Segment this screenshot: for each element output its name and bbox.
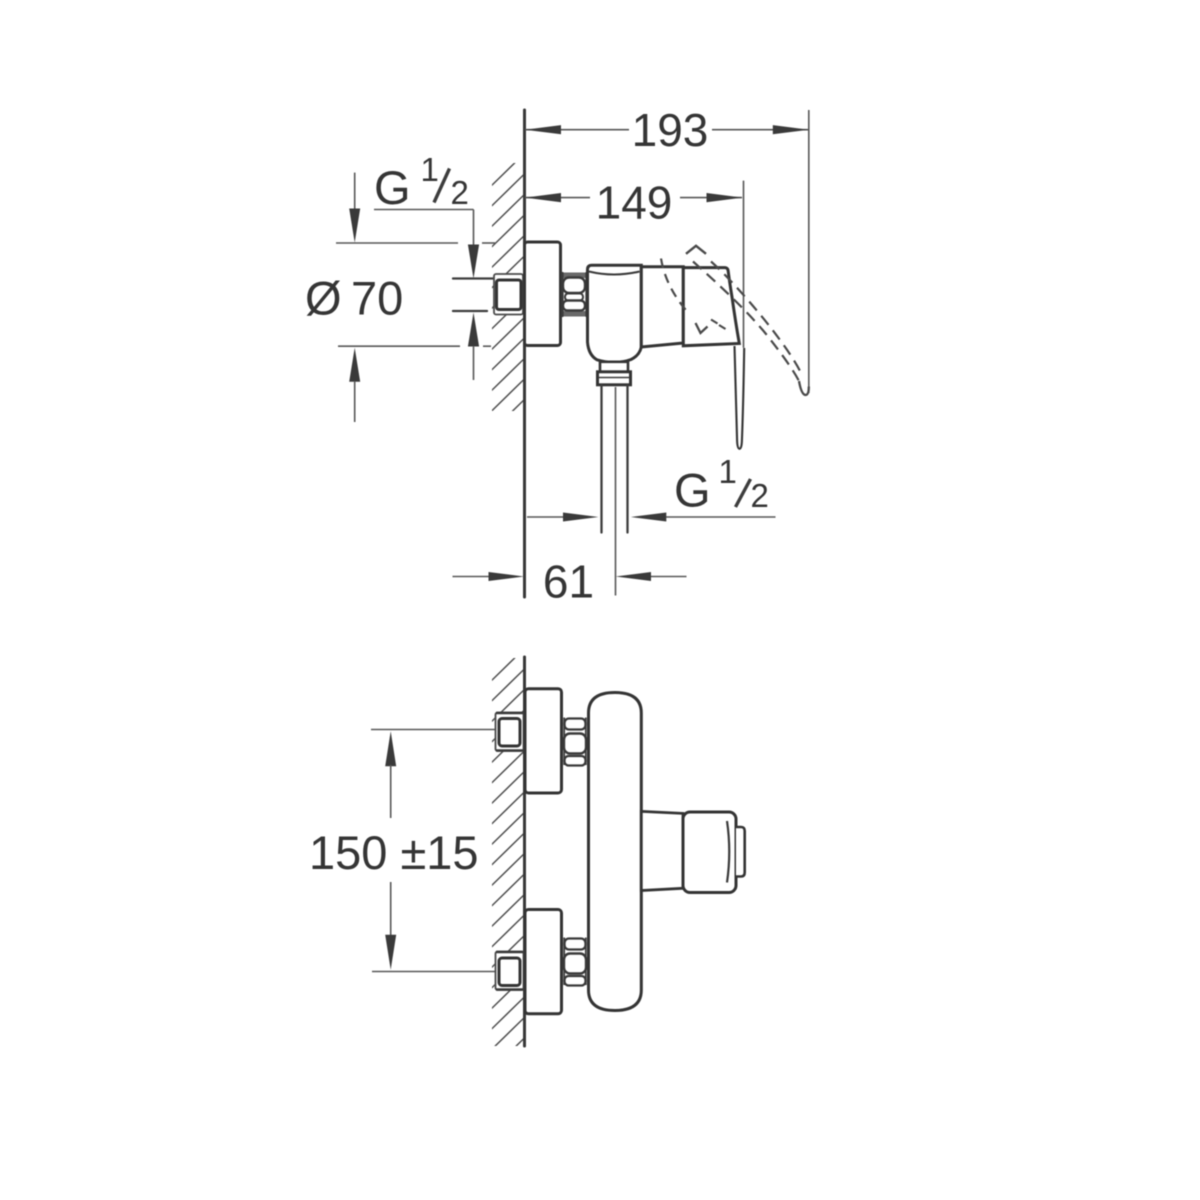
svg-text:1: 1 [719,453,737,490]
svg-text:1: 1 [421,151,439,188]
G1/2 leader bracket [374,209,474,211]
dimension 193: dimension line [525,104,809,393]
handle block (front view) [683,812,736,893]
rotation arc arrowhead (check mark) [696,323,708,333]
svg-text:150 ±15: 150 ±15 [309,826,479,879]
dashed lever edge A [693,262,800,383]
dashed lever tip hook [799,381,809,395]
pipe fitting square (bottom view, top union) [499,719,520,747]
hex union nut (side view) [563,273,587,316]
supply pipe lines behind wall [453,277,495,279]
G1/2 lower arrow (up) [468,313,479,347]
hose centre extension line [615,387,617,596]
bottom escutcheon (bottom view) [525,910,562,1014]
top union nut (bottom view) [564,718,586,766]
handle end button [736,827,745,877]
wall hatching (bottom view) [486,643,530,1076]
dimension 149 [525,177,744,349]
svg-text:2: 2 [751,477,769,514]
outlet collar [598,372,631,385]
outlet neck [600,362,628,372]
mixer body capsule (front view) [589,693,642,1011]
handle neck (front view) [641,811,683,890]
G1/2 hose dimension arrows [527,516,564,518]
threaded nipple bands [562,273,588,279]
150 dim line and arrows [385,731,396,766]
pipe fitting outer (bottom view, top union) [496,713,524,752]
dimension 150±15 ticks [371,729,497,731]
escutcheon flange (side view) [525,242,561,346]
wall line (bottom view) [523,657,526,1046]
shower hose lines [600,385,602,533]
193 right extension line [808,110,810,393]
svg-text:Ø: Ø [305,272,342,325]
dimension 61 [453,576,490,578]
149 right extension line [743,181,745,348]
dashed handle raised position: caret tip [686,246,706,254]
lower arc dashes [711,320,718,324]
dashed lever edge B [711,262,801,374]
body cap seam [589,272,640,275]
pipe fitting square (bottom view, bottom union) [499,958,520,986]
193 right arrow [773,125,809,134]
bottom union nut (bottom view) [564,938,586,986]
handle cap (side view) [683,268,739,346]
pipe fitting outer (bottom view, bottom union) [496,952,524,991]
svg-text:193: 193 [632,104,709,156]
dia70 top dashed extension [336,242,458,244]
dia 70 label [305,272,403,325]
svg-text:149: 149 [596,177,673,229]
svg-text:61: 61 [543,556,594,608]
handle lever blade (side view) [735,346,745,449]
handle dome arc [727,821,729,883]
label G 1/2 (hose connection) [674,453,769,517]
svg-text:2: 2 [451,174,469,211]
svg-text:G: G [674,464,711,517]
wall line (top view) [523,110,526,597]
svg-text:70: 70 [351,272,403,325]
pipe fitting square (top view) [497,280,522,310]
dia70 top arrow (down) [354,173,356,212]
rotation arc (dashed) [661,259,689,314]
label G 1/2 (top, wall connection) [374,151,469,214]
193 left arrow [525,125,561,134]
G1/2 upper arrow (down) [468,245,479,279]
dia70 bottom arrow (up) [349,348,360,382]
149 right arrow [707,193,743,202]
pipe fitting outer (top view) [494,274,523,315]
149 left arrow [525,193,561,202]
top escutcheon (bottom view) [525,689,562,793]
valve section [641,267,683,347]
dia70 bottom dashed extension [338,345,460,347]
mixer body (side view) [588,265,642,362]
svg-text:G: G [374,161,411,214]
